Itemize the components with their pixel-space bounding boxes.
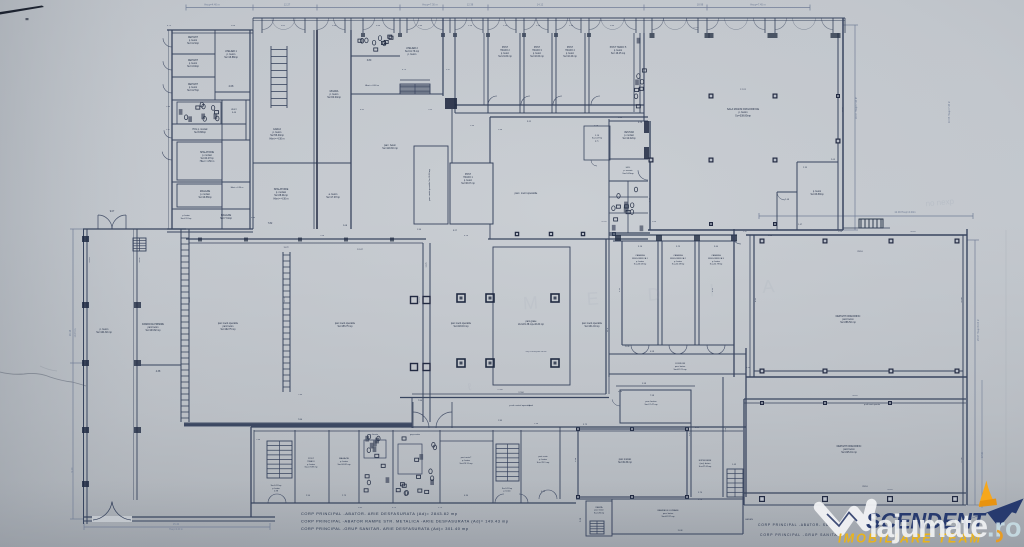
room POST TRAFO 2 [487,33,489,113]
svg-text:POST: POST [534,47,541,49]
svg-text:Hbet = 4.30 m: Hbet = 4.30 m [273,197,288,200]
ladder element right of sala masini [859,219,883,228]
svg-text:Su=2.17mp: Su=2.17mp [181,218,193,220]
svg-text:Hbet = 4.30 m: Hbet = 4.30 m [231,186,244,189]
rampa cross wall [137,364,181,366]
svg-text:DEPOZIT: DEPOZIT [188,37,199,39]
wc block bottom 2 [392,430,394,503]
svg-text:28.16: 28.16 [852,395,858,397]
room GARAJ [252,30,254,229]
svg-text:TRAFO 2: TRAFO 2 [500,49,510,52]
svg-text:p. beton: p. beton [462,459,471,462]
svg-text:Su=12.02mp: Su=12.02mp [622,138,636,140]
svg-text:MAGAZIE: MAGAZIE [339,457,349,460]
svg-text:CORP PRINCIPAL -ABATOR- ARIE D: CORP PRINCIPAL -ABATOR- ARIE DESFASURATA… [301,511,457,516]
svg-text:CAMERA: CAMERA [711,254,721,257]
sala masini bottom squares [709,222,713,226]
svg-text:29.97 Hsup=6.03 m: 29.97 Hsup=6.03 m [977,319,980,341]
parc grase columns [457,294,465,302]
svg-text:CORP PRINCIPAL -ABATOR RAMPE S: CORP PRINCIPAL -ABATOR RAMPE STR. METALI… [301,519,508,524]
svg-text:p.val mezi sparate: p.val mezi sparate [864,403,881,406]
svg-text:parc beton: parc beton [594,509,603,512]
svg-text:HOL: HOL [626,167,631,169]
svg-text:part ruste?: part ruste? [461,456,472,459]
svg-text:27.02: 27.02 [961,457,963,463]
left wall column marks [82,236,89,242]
hall right wall [605,239,607,394]
svg-text:Zu=221.38 mp+46.20 mp: Zu=221.38 mp+46.20 mp [518,324,545,326]
svg-text:p. beton: p. beton [503,490,510,493]
wall right of expediere [745,348,747,497]
wc cluster top-left [177,102,221,124]
svg-text:p. beton: p. beton [539,458,548,461]
svg-text:part ruste: part ruste [538,455,548,458]
room SPALATORIE [172,139,250,141]
svg-text:p. mozaic: p. mozaic [623,170,633,172]
svg-text:grup sanitar: grup sanitar [410,433,420,436]
big hall top wall [186,238,426,240]
svg-text:3.80: 3.80 [367,60,372,62]
expediere stair [727,469,743,497]
svg-text:Su=10.00 mp: Su=10.00 mp [530,56,544,58]
room DEPOZIT FRIGORIFIC 1 [746,234,967,236]
hatched wall bar mid hall [282,252,284,392]
svg-text:lajumate: lajumate [869,508,988,544]
svg-text:Su=338.85mp: Su=338.85mp [735,114,751,117]
room SALA MASINI FRIGORIFICE [649,121,651,230]
svg-text:Su=5.27mp: Su=5.27mp [271,485,283,487]
svg-text:TRAFO 3: TRAFO 3 [532,49,542,52]
left rooms near post trafo 1 [414,146,448,224]
svg-text:Su=286.50 mp: Su=286.50 mp [840,321,856,324]
black square column [445,98,457,109]
svg-text:p. faianta: p. faianta [370,433,379,436]
svg-text:FRIGORIFICA 1: FRIGORIFICA 1 [632,257,649,260]
hall columns row [515,232,520,237]
svg-text:parc metri operatiile: parc metri operatiile [582,322,603,325]
top-left block outer walls [171,30,173,229]
svg-text:Su=10.46 mp: Su=10.46 mp [563,56,577,58]
svg-text:SPALATORIE: SPALATORIE [200,151,215,154]
svg-text:Su=5.27mp: Su=5.27mp [502,488,513,490]
wc cells sanitary [624,207,627,212]
svg-text:Hbet = 4.50 m: Hbet = 4.50 m [200,160,215,163]
svg-text:Su=62.21 mp: Su=62.21 mp [673,369,687,371]
svg-text:Su=218.16 mp: Su=218.16 mp [453,326,469,328]
room rampa small [586,501,612,536]
room POST TRAFO 5 [584,33,586,113]
watermark white zigzag logo [819,504,872,531]
svg-text:Su=29.11 mp: Su=29.11 mp [460,463,474,465]
room small su5 [584,126,610,160]
svg-text:CORP PRINCIPAL -GRUP SANITAR-: CORP PRINCIPAL -GRUP SANITAR- ARIE DESFA… [301,526,468,531]
room POST TRAFO bottom [294,430,296,503]
svg-text:20.16: 20.16 [910,231,916,233]
svg-text:Su= 46.45 mp: Su= 46.45 mp [611,53,626,55]
stairwell bottom right [492,430,494,503]
bottom outer wall left [83,516,275,518]
narrow room in sala masini [776,192,778,230]
svg-text:p. beton: p. beton [189,39,198,42]
room part ruste [439,430,441,503]
svg-text:Su=16.88mp: Su=16.88mp [224,56,238,59]
svg-text:p. beton: p. beton [712,260,721,263]
svg-text:16.18: 16.18 [69,329,72,336]
svg-text:12.38: 12.38 [467,3,474,7]
svg-text:FRIGORIFICA 2: FRIGORIFICA 2 [670,257,687,260]
svg-text:parc. metri operatiile: parc. metri operatiile [515,192,538,195]
hall divider double wall [422,243,424,422]
svg-text:DEPOZIT: DEPOZIT [188,60,199,62]
post trafo row outer [455,104,644,106]
svg-text:Hbet = 4.00 m: Hbet = 4.00 m [365,84,379,87]
svg-text:parc metri operatiile: parc metri operatiile [335,322,356,325]
svg-text:p. beton: p. beton [272,487,280,490]
svg-text:9.07: 9.07 [110,211,115,213]
svg-text:p.val: p.val [529,405,534,407]
hall bottom wall centre [400,397,609,399]
room bottom far right [520,430,522,503]
svg-text:Su=131.04 mp: Su=131.04 mp [584,326,600,328]
svg-text:p. beton: p. beton [614,49,623,52]
svg-text:Su=36.07 mp: Su=36.07 mp [461,183,475,185]
svg-text:RAMPA DE PRIMIRE: RAMPA DE PRIMIRE [142,323,164,326]
room parc grase [493,247,570,385]
svg-text:Su=62.97 mp: Su=62.97 mp [661,516,675,518]
right dimension line depozit [974,240,976,505]
svg-text:Su=27.01mp: Su=27.01mp [699,466,712,468]
room CORIDOR [609,353,746,355]
room DEPOZIT FRIGORIFIC 2 [744,398,966,400]
svg-text:Su=21.84 mp: Su=21.84 mp [498,56,512,58]
bottom-left dimension line [84,526,270,528]
hol door arc to sala masini [638,170,648,180]
atelier2 wc [351,55,400,57]
svg-text:RAMPA: RAMPA [596,506,604,509]
svg-text:29.16: 29.16 [857,251,863,253]
svg-text:Su=192.75 mp: Su=192.75 mp [220,329,236,331]
svg-text:parc beton: parc beton [675,365,686,368]
svg-text:11.40: 11.40 [842,107,844,113]
svg-text:Su=156.75 mp: Su=156.75 mp [337,326,353,328]
svg-text:CORIDOR: CORIDOR [675,363,686,365]
svg-text:DEPOZIT: DEPOZIT [188,84,199,86]
svg-text:p. beton: p. beton [307,463,316,466]
svg-text:2.98: 2.98 [498,420,502,422]
svg-text:p. mozaic: p. mozaic [200,194,211,196]
room MAGAZIE bottom [328,430,330,503]
svg-text:POST: POST [502,47,509,49]
right dimension line sala masini [854,25,856,230]
wall moara right [350,30,352,229]
hall below post trafo [490,116,648,118]
svg-text:4.38: 4.38 [156,371,161,373]
svg-text:HOL p. mozaic: HOL p. mozaic [192,129,208,131]
svg-text:29.16: 29.16 [887,489,893,491]
svg-text:p. beton: p. beton [189,62,198,65]
vestiar dark wall fills [644,121,649,133]
room MAGAZIE 1 [172,181,250,183]
svg-text:2x(21.38 m)=49.20 m2: 2x(21.38 m)=49.20 m2 [526,351,548,353]
svg-text:p. beton: p. beton [408,53,417,56]
garage pit hatch [270,46,272,108]
svg-text:parc. metri operatiile Su=39.: parc. metri operatiile Su=39.18 mp [428,168,431,201]
svg-text:p. beton: p. beton [464,179,473,182]
room DEPOZIT 1 [172,53,215,55]
svg-text:p. beton: p. beton [566,52,575,55]
svg-text:Su=4.27mp: Su=4.27mp [187,90,200,92]
sala masini columns [709,94,714,99]
svg-text:Hsup=4.00 m: Hsup=4.00 m [169,529,183,531]
svg-text:parc beton: parc beton [148,326,160,329]
camera frigorifica top wall [609,234,737,236]
room POST TRAFO 4 [551,33,553,113]
svg-text:p. beton: p. beton [636,260,645,263]
bottom block doors [268,494,277,503]
svg-text:p. beton: p. beton [182,214,190,217]
svg-text:EXPEDIERE: EXPEDIERE [699,460,712,462]
svg-text:p. beton: p. beton [813,190,822,193]
svg-text:Su=60.04mp: Su=60.04mp [327,96,341,99]
svg-text:11.71: 11.71 [284,297,286,303]
funnel door to bottom block [413,412,429,428]
atelier2 stair hatch [400,84,430,94]
df2 squares top [760,401,764,405]
room HOL top-left [172,123,246,125]
svg-text:parc beton: parc beton [223,325,235,328]
rampa band column marks [134,302,141,308]
wall garaj-moara [316,30,318,229]
room HOL sanitary [609,180,648,182]
room EXPEDIERE [690,423,692,497]
room ATELIER 2 [442,18,444,96]
hatched wall bar rampa-hall [180,229,182,422]
sanitary block left wall [608,119,610,233]
small room in sala masini [796,162,798,230]
left dimension line [72,229,74,519]
svg-text:Su=7.31mp: Su=7.31mp [220,218,233,220]
rampa stair [133,238,146,251]
svg-text:MAGAZIE: MAGAZIE [221,214,232,217]
svg-text:17.24: 17.24 [693,27,699,29]
svg-text:CORP PRINCIPAL -ABATOR- SUP...: CORP PRINCIPAL -ABATOR- SUP... [758,523,836,527]
svg-text:VESTIAR: VESTIAR [624,131,634,134]
svg-text:POST: POST [567,47,574,49]
svg-text:18.50: 18.50 [189,297,191,303]
svg-text:TRAFO 1: TRAFO 1 [463,176,473,179]
svg-text:CORP PRINCIPAL -GRUP SANITAR: CORP PRINCIPAL -GRUP SANITAR [760,533,841,537]
left hall top wall [83,228,186,230]
room VESTIAR [609,120,648,122]
door recess post trafo [488,96,497,105]
svg-text:RAMPA DE LIVRARE: RAMPA DE LIVRARE [657,509,679,512]
svg-text:Su=49.36 mp: Su=49.36 mp [618,462,632,464]
bottom double door arch [92,516,132,522]
left outer wall [83,229,85,524]
df1 columns [760,239,765,244]
room parc festive [620,390,691,423]
facade wall with bay openings [253,17,845,19]
room CAMERA FRIGORIFICA 1 [621,241,623,345]
svg-text:Su=5.45mp: Su=5.45mp [622,173,634,175]
svg-text:parc grase: parc grase [526,320,538,323]
watermark navy squiggle in logo [827,513,857,527]
svg-text:Su=5.81mp: Su=5.81mp [594,512,605,514]
svg-text:Su=10.88mp: Su=10.88mp [198,197,212,199]
svg-text:10.74 m: 10.74 m [74,329,77,338]
dimension line above depozit frigorific [759,215,973,217]
room CAMERA FRIGORIFICA 3 [733,229,735,377]
svg-text:7.82: 7.82 [268,223,273,225]
svg-text:(are) beton: (are) beton [700,462,711,465]
room MAGAZIE 2 [172,208,250,210]
svg-text:FRIGORIFICA 3: FRIGORIFICA 3 [708,257,725,260]
svg-text:17.75: 17.75 [426,262,428,268]
svg-text:Su=225.91 mp: Su=225.91 mp [841,451,857,454]
svg-text:GEDEN: GEDEN [745,519,753,521]
svg-text:VEST.: VEST. [231,109,237,111]
rampa small stair [590,521,604,534]
svg-text:12.47: 12.47 [357,249,363,251]
svg-text:Su=4.21mp: Su=4.21mp [187,43,200,45]
df2 columns bottom [759,496,765,502]
svg-text:TRAFO: TRAFO [307,460,315,463]
watermark navy arrow [968,499,1024,528]
pen mark top-left corner [0,6,44,15]
svg-text:15.18: 15.18 [89,257,91,263]
svg-text:CAMERA: CAMERA [635,254,645,257]
svg-text:Su=16.82 mp: Su=16.82 mp [337,464,351,466]
svg-text:12.27: 12.27 [284,3,291,7]
svg-text:Su=4.04mp: Su=4.04mp [187,66,200,68]
svg-text:Su=17.47 mp: Su=17.47 mp [644,404,658,406]
room POST TRAFO 3 [519,33,521,113]
svg-text:Su=17.89 mp: Su=17.89 mp [304,467,318,469]
room ATELIER 1 [215,91,250,93]
svg-text:p. beton: p. beton [533,52,542,55]
svg-text:17.84: 17.84 [497,389,503,391]
svg-text:Su= 29.1 mp: Su= 29.1 mp [537,462,550,464]
hall top wall pier marks [198,238,202,242]
svg-text:9.10: 9.10 [71,467,74,472]
svg-text:p. mozaic: p. mozaic [202,155,213,157]
svg-text:Hsup=4.40 m: Hsup=4.40 m [204,3,220,7]
room DEPOZIT 2 [172,76,215,78]
room POST TRAFO 1 [450,163,493,224]
room CAMERA FRIGORIFICA 2 [694,241,696,345]
svg-text:Su=22.59mp: Su=22.59mp [672,264,685,266]
svg-text:POST: POST [465,174,472,176]
svg-text:Su=25.05mp: Su=25.05mp [634,264,647,266]
svg-text:p. beton: p. beton [674,260,683,263]
facade door arcs [262,18,274,30]
cf wall squares [615,235,621,241]
top dimension line [186,7,810,9]
facade pier base marks [361,33,365,37]
svg-text:12.29: 12.29 [601,221,607,223]
svg-text:15.40: 15.40 [173,523,180,526]
svg-text:p. beton: p. beton [189,86,198,89]
svg-text:parc beton: parc beton [663,512,674,515]
svg-text:27.02: 27.02 [981,451,984,458]
svg-text:17.74: 17.74 [740,89,746,91]
svg-text:Su=101.82 mp: Su=101.82 mp [96,331,112,334]
svg-text:Su=103.82 mp: Su=103.82 mp [145,330,161,332]
svg-text:Su=119.30 mp: Su=119.30 mp [382,147,398,150]
bottom block outer [251,426,746,428]
svg-text:10.55 Hsup=7.45 m: 10.55 Hsup=7.45 m [948,101,951,123]
svg-text:TRAFO 4: TRAFO 4 [565,49,575,52]
svg-text:p. beton: p. beton [501,52,510,55]
room a.beton 17 [317,162,351,164]
svg-text:Su=22.79mp: Su=22.79mp [710,264,723,266]
svg-text:parc mozaic: parc mozaic [619,458,632,461]
svg-text:14.12: 14.12 [537,3,544,7]
svg-text:.ro: .ro [987,513,1022,543]
room stair left [267,441,292,478]
svg-text:POST TRAFO 5: POST TRAFO 5 [610,46,627,49]
svg-text:p. beton: p. beton [340,460,349,463]
rampa band wall [136,229,138,500]
svg-text:11.72: 11.72 [283,247,289,249]
svg-text:Su=5.07mp: Su=5.07mp [592,138,603,140]
svg-text:Hbet = 4.30 m: Hbet = 4.30 m [269,137,284,140]
svg-text:Su=17.07mp: Su=17.07mp [326,196,340,199]
faint fold line right [1005,230,1007,520]
svg-text:Hsup=7.45 m: Hsup=7.45 m [750,3,766,7]
svg-text:p. mozaic: p. mozaic [624,135,635,137]
svg-text:14.88: 14.88 [961,297,963,303]
svg-text:17.75: 17.75 [419,297,421,303]
svg-text:2.08: 2.08 [229,85,234,88]
svg-text:18.98: 18.98 [697,3,704,7]
watermark orange swirl [996,531,1002,541]
sala masini wall pier marks [650,33,655,38]
room parc mozaic [578,429,687,497]
pencil crease left margin [0,372,86,386]
svg-text:POST: POST [308,458,315,460]
room DEPOZIT 3 [172,99,250,101]
cf bottom wall and doors [622,344,734,346]
svg-text:18.02: 18.02 [139,257,141,263]
svg-text:Su=23.89mp: Su=23.89mp [810,194,824,196]
svg-text:MAGAZIE: MAGAZIE [200,190,211,193]
svg-text:parc metri operatiile: parc metri operatiile [218,322,239,325]
svg-text:16.57 Hsup=7.45 m: 16.57 Hsup=7.45 m [855,97,858,119]
svg-text:Su=8.88mp: Su=8.88mp [194,132,207,134]
room RAMPA DE LIVRARE [576,498,743,500]
svg-text:parc festive: parc festive [645,400,657,403]
narrow wc strip [637,74,640,79]
wc block bottom 1 [358,430,360,503]
top-left double door funnel [98,215,112,229]
svg-text:12.09 Hsup=4.00m: 12.09 Hsup=4.00m [894,211,915,214]
svg-text:Su=24.27mp: Su=24.27mp [200,158,214,160]
svg-text:29.16: 29.16 [862,486,868,488]
hall bottom wall left [184,423,412,427]
df1 top door arcs [732,235,741,244]
svg-text:parc metri operatiile: parc metri operatiile [451,322,472,325]
svg-text:CAMERA: CAMERA [673,254,683,257]
svg-text:Hsup=7.30 m: Hsup=7.30 m [422,3,438,7]
svg-text:p.m.: p.m. [595,140,599,142]
watermark yellow triangle [979,481,996,507]
